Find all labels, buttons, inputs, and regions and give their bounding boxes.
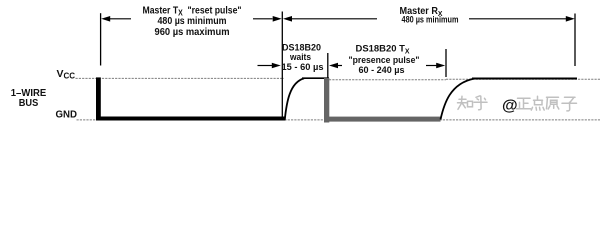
svg-text:DS18B20 TX: DS18B20 TX bbox=[356, 44, 410, 56]
svg-text:60 - 240 µs: 60 - 240 µs bbox=[359, 65, 405, 76]
svg-text:480 µs minimum: 480 µs minimum bbox=[402, 15, 459, 26]
svg-text:960 µs maximum: 960 µs maximum bbox=[155, 27, 230, 38]
svg-text:GND: GND bbox=[56, 109, 78, 121]
svg-text:@: @ bbox=[502, 97, 518, 114]
svg-text:15 - 60 µs: 15 - 60 µs bbox=[282, 62, 324, 73]
svg-text:480 µs minimum: 480 µs minimum bbox=[158, 16, 227, 27]
svg-text:BUS: BUS bbox=[19, 97, 39, 109]
